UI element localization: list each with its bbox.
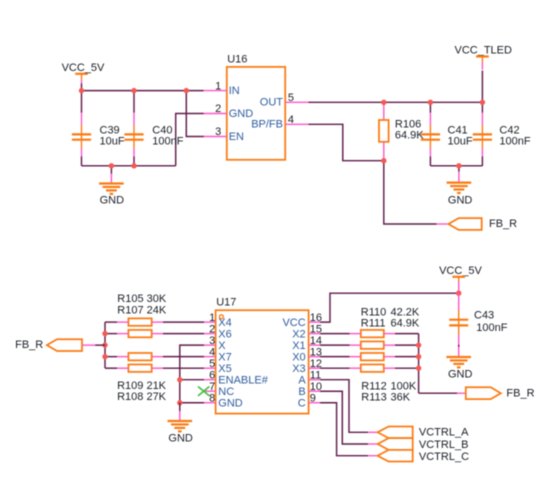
svg-text:GND: GND bbox=[218, 398, 243, 410]
svg-text:R109 21K: R109 21K bbox=[117, 380, 167, 392]
svg-text:X3: X3 bbox=[292, 363, 305, 375]
svg-text:BP/FB: BP/FB bbox=[251, 119, 283, 131]
svg-text:X0: X0 bbox=[292, 352, 305, 364]
svg-text:R113: R113 bbox=[361, 392, 386, 404]
svg-text:IN: IN bbox=[229, 85, 240, 97]
svg-text:GND: GND bbox=[168, 432, 193, 444]
svg-text:OUT: OUT bbox=[260, 97, 284, 109]
svg-text:X1: X1 bbox=[292, 340, 305, 352]
svg-text:64.9K: 64.9K bbox=[391, 318, 420, 330]
svg-text:EN: EN bbox=[229, 131, 244, 143]
svg-text:C: C bbox=[298, 398, 306, 410]
svg-text:100nF: 100nF bbox=[476, 322, 507, 334]
svg-text:8: 8 bbox=[209, 393, 215, 405]
svg-text:7: 7 bbox=[209, 381, 215, 393]
svg-text:GND: GND bbox=[100, 195, 125, 207]
svg-text:X2: X2 bbox=[292, 329, 305, 341]
svg-text:GND: GND bbox=[448, 195, 473, 207]
svg-text:FB_R: FB_R bbox=[15, 339, 43, 351]
svg-text:B: B bbox=[298, 386, 305, 398]
svg-text:VCTRL_B: VCTRL_B bbox=[419, 439, 469, 451]
svg-text:10uF: 10uF bbox=[100, 135, 125, 147]
svg-text:X5: X5 bbox=[218, 363, 231, 375]
svg-text:6: 6 bbox=[209, 370, 215, 382]
svg-text:5: 5 bbox=[288, 92, 294, 104]
svg-text:36K: 36K bbox=[391, 392, 411, 404]
svg-text:3: 3 bbox=[215, 126, 221, 138]
svg-text:X4: X4 bbox=[218, 317, 231, 329]
svg-text:X6: X6 bbox=[218, 329, 231, 341]
svg-text:9: 9 bbox=[310, 393, 316, 405]
svg-text:NC: NC bbox=[218, 386, 234, 398]
svg-text:100nF: 100nF bbox=[499, 135, 530, 147]
svg-text:2: 2 bbox=[209, 324, 215, 336]
svg-text:2: 2 bbox=[215, 103, 221, 115]
svg-text:1: 1 bbox=[209, 312, 215, 324]
svg-text:X7: X7 bbox=[218, 352, 231, 364]
svg-text:GND: GND bbox=[229, 108, 254, 120]
svg-text:VCC_5V: VCC_5V bbox=[62, 62, 105, 74]
svg-text:100K: 100K bbox=[391, 380, 417, 392]
svg-text:U16: U16 bbox=[227, 53, 247, 65]
svg-text:R112: R112 bbox=[361, 380, 386, 392]
svg-text:FB_R: FB_R bbox=[489, 218, 517, 230]
svg-text:C43: C43 bbox=[474, 310, 494, 322]
svg-text:5: 5 bbox=[209, 358, 215, 370]
svg-text:A: A bbox=[298, 375, 306, 387]
svg-text:64.9K: 64.9K bbox=[395, 129, 424, 141]
svg-text:4: 4 bbox=[209, 347, 215, 359]
svg-text:1: 1 bbox=[215, 80, 221, 92]
svg-text:R105 30K: R105 30K bbox=[117, 293, 167, 305]
svg-text:R107 24K: R107 24K bbox=[117, 305, 167, 317]
svg-text:U17: U17 bbox=[216, 297, 236, 309]
svg-text:ENABLE#: ENABLE# bbox=[218, 375, 268, 387]
svg-text:11: 11 bbox=[310, 370, 321, 382]
svg-text:GND: GND bbox=[448, 368, 473, 380]
svg-text:VCC_5V: VCC_5V bbox=[439, 265, 482, 277]
svg-text:X: X bbox=[218, 340, 226, 352]
svg-text:FB_R: FB_R bbox=[506, 387, 534, 399]
svg-text:VCTRL_C: VCTRL_C bbox=[419, 451, 469, 463]
svg-text:R108 27K: R108 27K bbox=[117, 391, 167, 403]
svg-text:VCC: VCC bbox=[282, 317, 305, 329]
svg-text:3: 3 bbox=[209, 335, 215, 347]
svg-text:R111: R111 bbox=[361, 318, 386, 330]
svg-text:4: 4 bbox=[288, 114, 294, 126]
svg-text:10uF: 10uF bbox=[448, 135, 473, 147]
svg-text:100nF: 100nF bbox=[152, 135, 183, 147]
svg-text:VCC_TLED: VCC_TLED bbox=[455, 45, 513, 57]
svg-text:VCTRL_A: VCTRL_A bbox=[419, 427, 469, 439]
